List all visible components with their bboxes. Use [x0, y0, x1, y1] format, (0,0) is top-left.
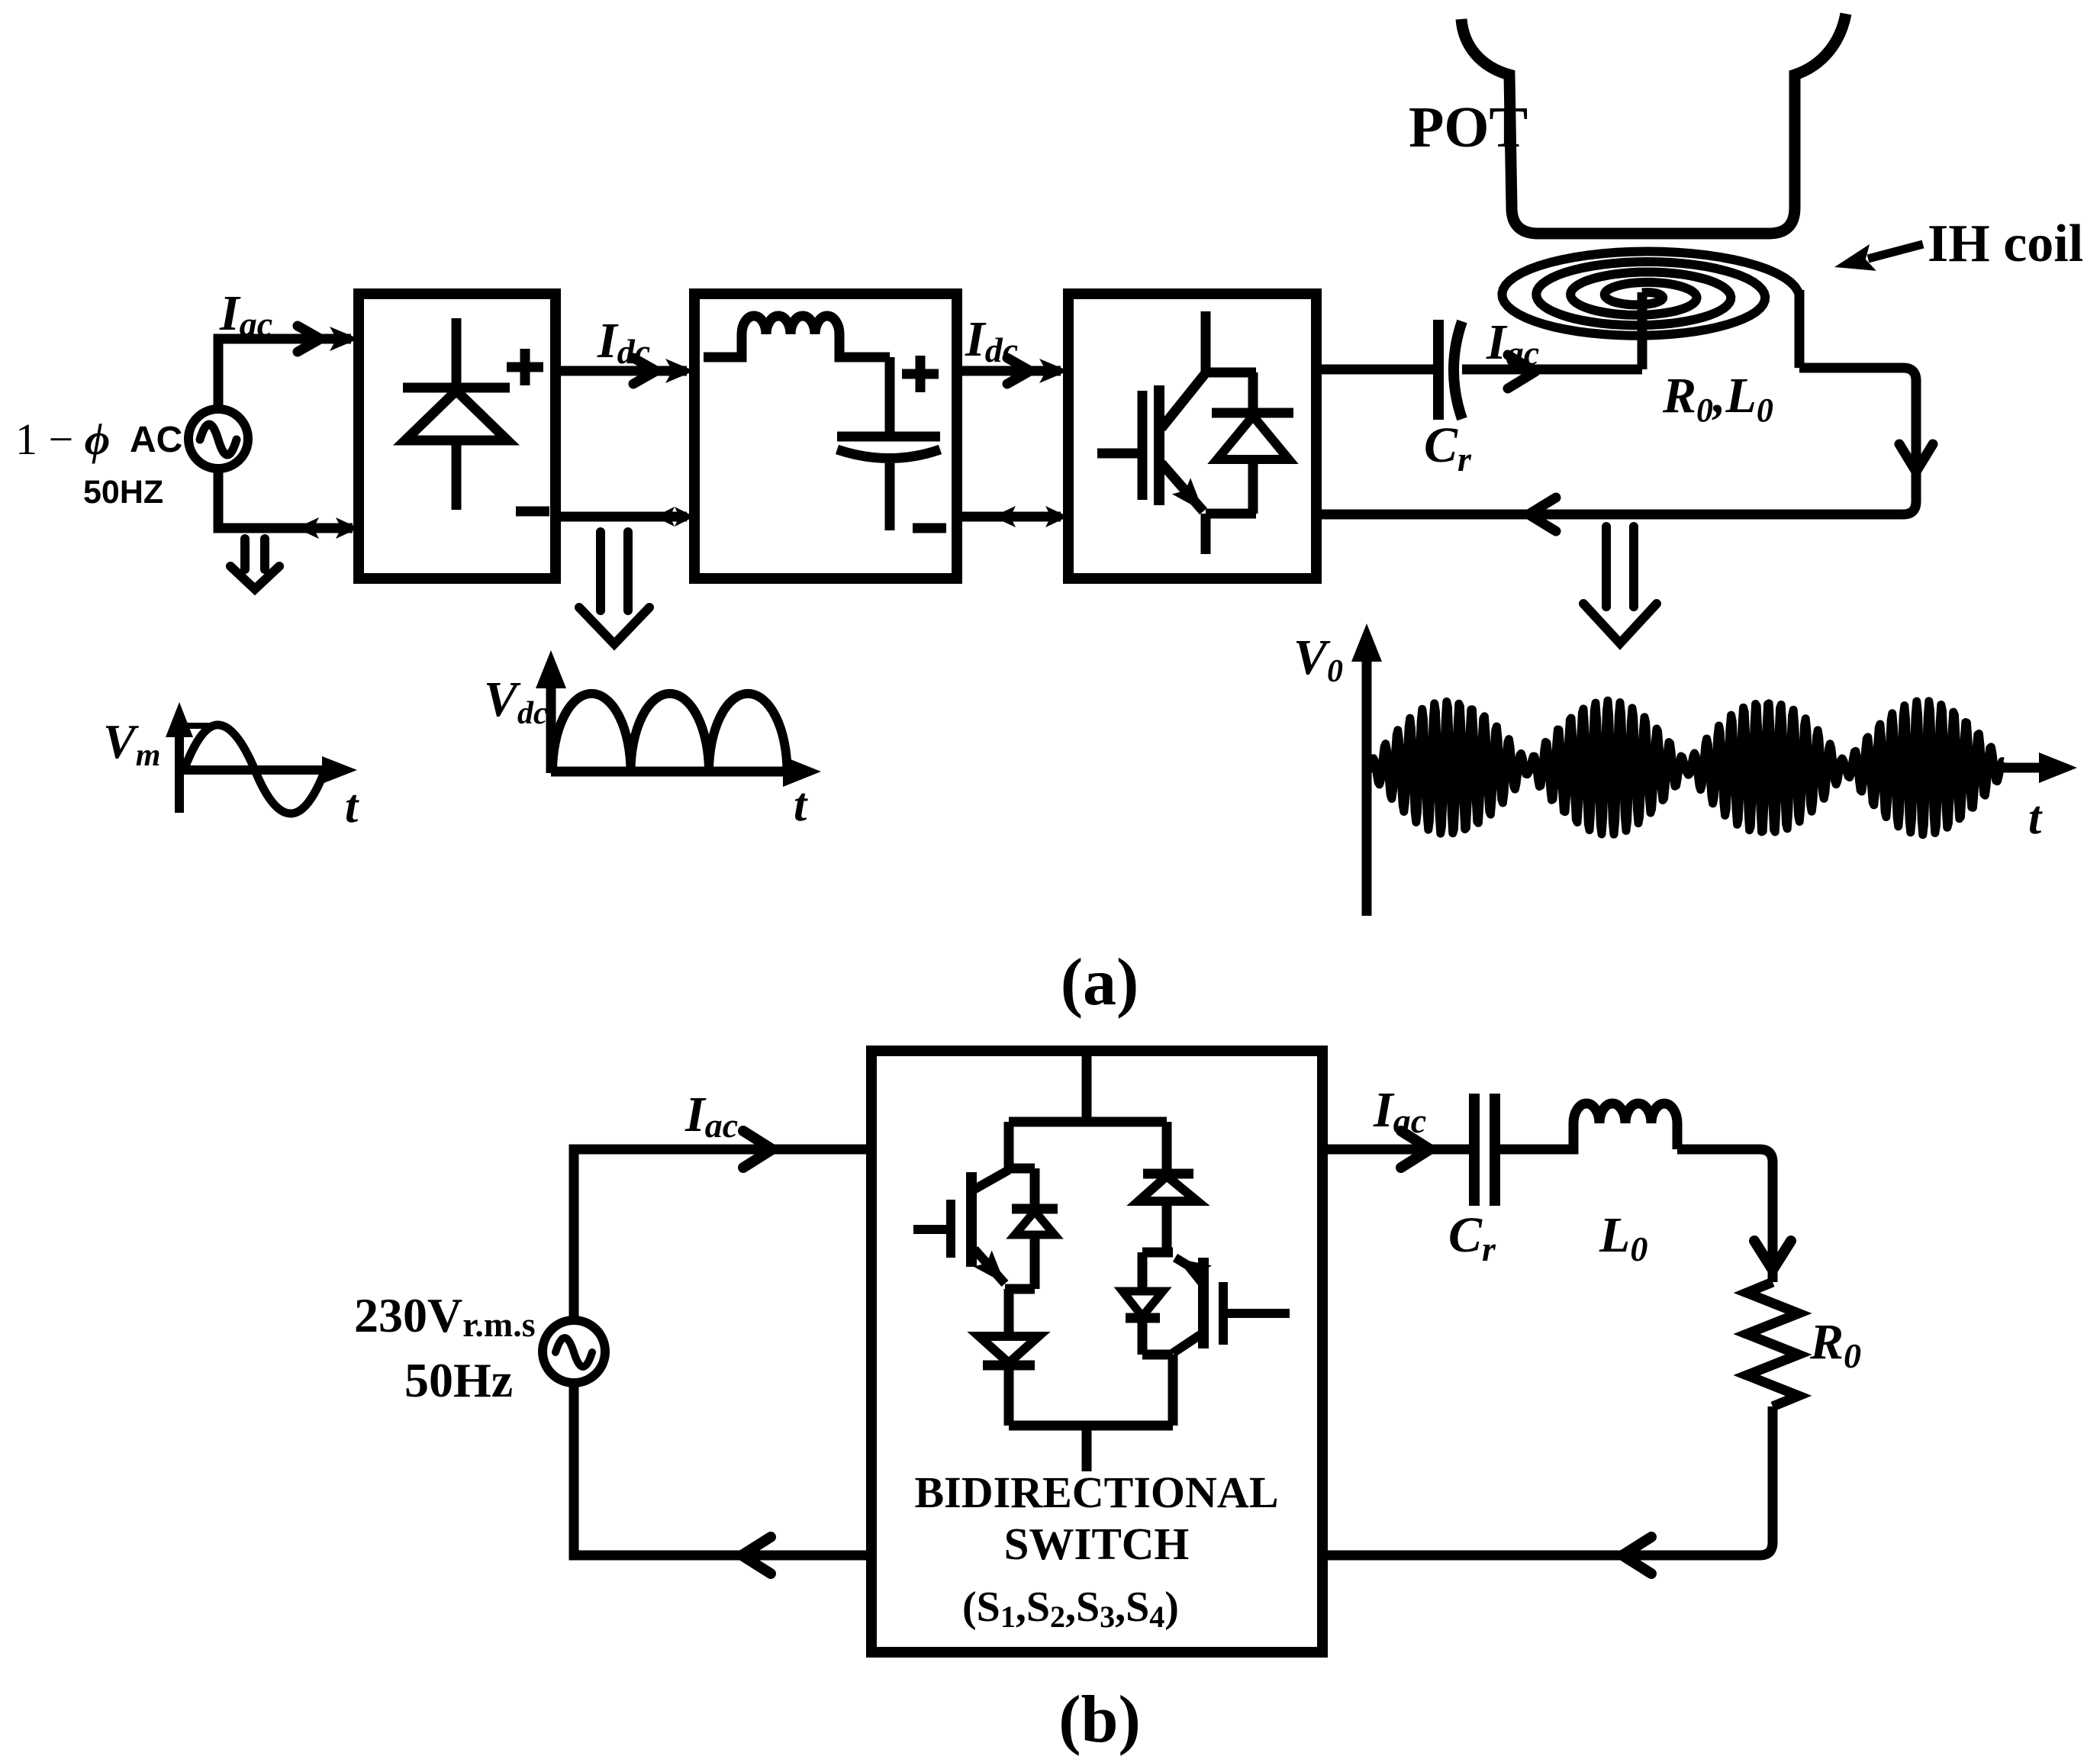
plot Vdc vs t : y-axis [546, 665, 556, 773]
diode D3 (series, pointing up) [1143, 1169, 1193, 1179]
plus terminal of filter [902, 356, 939, 392]
IGBT Q (inverter switch) [1201, 311, 1256, 372]
AC source V1 (1-phase, 50 Hz) [188, 409, 248, 469]
arrow Iac toward Cr [1401, 1131, 1430, 1168]
wire rectifier to filter (bottom) [556, 512, 687, 522]
arrow left on fig b bottom-left wire [742, 1537, 771, 1574]
AM output waveform V0 [1370, 701, 2003, 835]
plot V0 vs t : x-axis [1367, 763, 2060, 773]
diode D2 (series, pointing down) [979, 1336, 1039, 1363]
arrow Iac into rectifier [330, 327, 359, 351]
right branch wire down to D3 [1162, 1122, 1172, 1174]
arrow Iac toward coil [1508, 355, 1535, 388]
switch bottom bar and stub [1009, 1426, 1173, 1471]
block inverter (resonant) [1068, 294, 1316, 578]
wire inverter output to Cr [1316, 365, 1433, 375]
capacitor Cr (resonant, fig a) [1433, 320, 1444, 420]
open arrow down from source bottom wire [230, 539, 279, 589]
wire L0 to R0 corner [1677, 1149, 1773, 1282]
coil feed wire [1638, 292, 1647, 369]
double arrow on source bottom wire [296, 517, 319, 539]
sine waveform Vm [184, 725, 325, 814]
resistor R0 [1747, 1282, 1799, 1406]
wire coil outer end down and right loop [1316, 290, 1916, 514]
diode D1 (antiparallel to S1) [1012, 1168, 1058, 1209]
wire switch block to Cr (fig b) [1322, 1145, 1469, 1155]
wire source to switch block (top) [574, 1149, 871, 1320]
capacitor Cr (fig b) [1474, 1094, 1495, 1206]
arrow Iac into switch block [743, 1131, 772, 1168]
arrow Idc into inverter [1039, 359, 1068, 383]
svg-text:50Hz: 50Hz [404, 1353, 513, 1407]
AC source V2 (230V rms, 50 Hz) [543, 1320, 605, 1383]
inductor L (filter) [704, 334, 742, 357]
rectified humps waveform Vdc [552, 694, 787, 772]
diode D4 (antiparallel to S2) [1138, 1252, 1148, 1291]
open arrow down to V0 plot [1583, 527, 1657, 643]
svg-text:50HZ: 50HZ [83, 474, 163, 511]
block bidirectional switch [871, 1051, 1322, 1652]
arrow down into R0 [1754, 1241, 1791, 1270]
plot Vm vs t : y-axis [175, 716, 184, 813]
double arrow on rectifier-filter bottom wire [655, 507, 675, 527]
plot Vm vs t : x-axis [179, 765, 343, 775]
svg-text:t: t [794, 779, 808, 831]
svg-text:POT: POT [1409, 95, 1528, 159]
wire S1 emitter down to D2 [1004, 1289, 1014, 1336]
IH coil spiral (R0,L0) [1502, 252, 1799, 336]
svg-text:IH coil: IH coil [1928, 214, 2083, 273]
diode D (inverter freewheel) [1212, 372, 1293, 413]
wire source bottom to rectifier input [218, 469, 353, 528]
wire switch block to source (bottom) [574, 1383, 871, 1555]
open arrow down to Vdc plot [579, 532, 649, 644]
arrow down on right loop [1899, 444, 1933, 472]
inductor L0 [1573, 1104, 1677, 1123]
block rectifier (AC-DC) [359, 294, 556, 578]
POT outline [1461, 14, 1846, 234]
svg-text:AC: AC [130, 420, 182, 460]
tick dash at Vm peak [185, 723, 217, 729]
wire source top to rectifier input [218, 339, 351, 409]
arrow left on bottom return wire [1528, 498, 1556, 531]
right branch bottom wires [1142, 1355, 1173, 1426]
svg-text:1 − ϕ: 1 − ϕ [15, 414, 110, 464]
minus terminal of rectifier [516, 507, 549, 517]
arrow left on fig b bottom-right wire [1622, 1537, 1651, 1574]
wire Cr to L0 [1495, 1123, 1573, 1149]
svg-text:(S1,S2,S3,S4): (S1,S2,S3,S4) [962, 1584, 1179, 1634]
wire R0 down to bottom return [1322, 1406, 1773, 1555]
capacitor C (filter) [837, 357, 940, 437]
svg-text:BIDIRECTIONAL: BIDIRECTIONAL [915, 1468, 1279, 1517]
left branch wire down to S1 [1005, 1122, 1035, 1168]
double arrow on filter-inverter bottom wire [993, 506, 1016, 527]
svg-text:t: t [2028, 792, 2043, 844]
svg-text:SWITCH: SWITCH [1004, 1519, 1190, 1569]
arrow Idc into filter [665, 359, 694, 383]
wire Cr to coil [1462, 365, 1642, 375]
svg-text:(b): (b) [1058, 1683, 1141, 1756]
minus terminal of filter [913, 524, 946, 533]
wire Idc rectifier to filter (top) [556, 366, 687, 376]
IGBT S1 [966, 1172, 977, 1267]
diode D (rectifier symbol) [403, 318, 510, 510]
wire filter to inverter (bottom) [957, 512, 1061, 522]
svg-text:(a): (a) [1061, 946, 1139, 1020]
svg-text:t: t [345, 781, 359, 833]
block filter (L-C) [694, 294, 957, 578]
plus terminal of rectifier [507, 349, 543, 385]
IGBT S2 (mirrored, conducts upward) [1198, 1258, 1209, 1348]
plot V0 vs t : y-axis [1362, 640, 1372, 916]
plot Vdc vs t : x-axis [551, 767, 806, 777]
wire Idc filter to inverter (top) [957, 366, 1061, 376]
switch top stub and bar [1009, 1055, 1167, 1122]
